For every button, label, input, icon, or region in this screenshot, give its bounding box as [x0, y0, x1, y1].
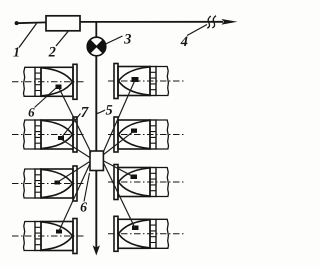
leader for label 4: [187, 25, 207, 36]
leader for label 5: [97, 110, 105, 114]
loom machine R1: [108, 64, 186, 99]
loom machine L1: [12, 64, 84, 99]
wire: vertical duct 5: [95, 56, 97, 152]
loom machine R3: [108, 165, 186, 200]
wire: main horizontal supply line: [17, 22, 224, 23]
tube to loom L3: [57, 162, 90, 183]
label 3: [124, 34, 131, 44]
leader for label 6 (center): [84, 173, 90, 202]
nozzle box on loom L2: [58, 136, 64, 140]
tube to loom L4: [59, 164, 90, 231]
wire: duct drop to valve: [95, 22, 97, 37]
tube to loom R3: [104, 161, 134, 177]
tube to loom R2: [104, 131, 134, 155]
distributor box: [90, 151, 103, 171]
leader for label 3: [105, 36, 123, 45]
valve 3 (circle, filled side sectors): [87, 37, 106, 56]
tube to loom R4: [104, 164, 135, 229]
label 5: [106, 105, 113, 115]
tube to loom L1: [59, 87, 92, 153]
arrow: duct bottom outlet: [93, 245, 100, 255]
nozzle box on loom L4: [56, 230, 62, 234]
loom machine R2: [108, 117, 186, 152]
nozzle box on loom L3: [55, 181, 61, 185]
pipe break symbol: [207, 16, 216, 29]
tube to loom L2: [61, 139, 90, 158]
loom machine L2: [12, 117, 84, 152]
arrow: supply line right end: [222, 19, 238, 25]
label 7: [81, 107, 89, 117]
nozzle box on loom R4: [132, 226, 139, 231]
nozzle box on loom R2: [131, 129, 137, 133]
leader for label 7: [62, 114, 81, 138]
loom machine R4: [108, 216, 186, 251]
label 2: [49, 47, 56, 57]
loom machine L4: [12, 219, 84, 254]
node: supply line start dot: [15, 21, 19, 25]
nozzle box on loom L1: [56, 85, 62, 90]
label 6 (left): [29, 108, 35, 117]
leader for label 2: [56, 32, 68, 47]
tube to loom R1: [103, 80, 135, 152]
label 6 (center): [81, 202, 87, 211]
leader for label 1: [19, 24, 37, 48]
label 1: [13, 47, 18, 56]
wire: duct below distributor: [95, 171, 97, 248]
nozzle box on loom R1: [132, 77, 139, 82]
nozzle box on loom R3: [131, 175, 138, 180]
label 4: [181, 37, 188, 47]
fan unit block 2: [46, 16, 80, 31]
loom machine L3: [12, 166, 84, 201]
leader for label 6 (left): [35, 88, 57, 108]
